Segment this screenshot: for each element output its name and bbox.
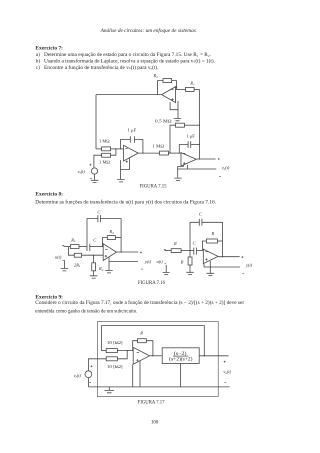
label - (input) / terminal bbox=[63, 259, 65, 261]
wire: local feedback left riser bbox=[133, 341, 138, 351]
wire: R2 feedback left riser bbox=[102, 238, 107, 247]
svg-text:R: R bbox=[180, 259, 184, 264]
svg-text:u(t): u(t) bbox=[55, 254, 62, 259]
wire: C2 to rail bbox=[191, 144, 200, 146]
wire: output minus lead bbox=[109, 260, 138, 262]
wire: 1 Mohm b to node bbox=[111, 149, 116, 155]
wire: vertical R to ground bbox=[189, 265, 191, 272]
node: risers join output bbox=[222, 256, 223, 257]
wire: R1 to right riser bbox=[194, 88, 199, 90]
svg-text:u(t): u(t) bbox=[157, 259, 164, 264]
op-amp A3 bbox=[133, 347, 149, 364]
wire: C2 left riser bbox=[179, 145, 188, 154]
resistor R1 bbox=[70, 245, 79, 249]
ground (right input reference) bbox=[163, 273, 170, 275]
U3 + input box bbox=[178, 165, 188, 169]
voltage source vs(t) bbox=[91, 168, 97, 174]
svg-text:b): b) bbox=[36, 58, 41, 65]
wire: 0.5 Mohm left riser bbox=[170, 125, 176, 153]
svg-text:0.5 MΩ: 0.5 MΩ bbox=[155, 118, 172, 123]
node: rail joins output bbox=[199, 158, 200, 159]
ground (output reference) bbox=[105, 271, 112, 273]
wire: series C to op-amp bbox=[90, 246, 103, 248]
wire: source up lead bbox=[88, 359, 106, 371]
svg-text:vo(t): vo(t) bbox=[222, 165, 230, 171]
label + (output port) bbox=[218, 158, 220, 160]
svg-text:Usando a transformada de Lapla: Usando a transformada de Laplace, resolv… bbox=[44, 58, 215, 65]
svg-text:1 MΩ: 1 MΩ bbox=[152, 144, 164, 149]
svg-text:vs(t): vs(t) bbox=[74, 373, 82, 379]
node B (R-C junction) bbox=[189, 250, 190, 251]
wire: minus terminal to ground bbox=[63, 260, 65, 268]
node: feedback risers join output bbox=[120, 251, 121, 252]
svg-text:Encontre a função de transferê: Encontre a função de transferência de vₛ… bbox=[44, 64, 159, 71]
capacitor C (top feedback) bbox=[98, 215, 101, 222]
wire: 0.5 Mohm to rail bbox=[185, 124, 200, 126]
wire: R2 left riser bbox=[158, 81, 164, 95]
capacitor 1 uF (integrator 1) bbox=[130, 136, 134, 142]
node: C1 tap bbox=[120, 148, 121, 149]
wire: R2 right riser bbox=[172, 81, 177, 90]
capacitor C (series right ckt) bbox=[194, 248, 197, 255]
ground (top op-amp) bbox=[174, 119, 181, 121]
resistor 1 Mohm b (from source) bbox=[102, 153, 111, 157]
svg-text:1 μF: 1 μF bbox=[128, 128, 137, 133]
svg-text:C: C bbox=[97, 210, 100, 215]
node: op-amp inverting input bbox=[127, 350, 128, 351]
svg-text:1 μF: 1 μF bbox=[186, 134, 195, 139]
wire: R2 to ground bbox=[93, 271, 95, 276]
wire: U1 input to R1 bbox=[176, 88, 186, 90]
svg-text:R1: R1 bbox=[70, 237, 76, 243]
wire: subcircuit ground pin bbox=[180, 364, 182, 387]
wire: to integrator 2 input bbox=[169, 152, 182, 154]
wire: feedback R left riser bbox=[203, 241, 207, 251]
node: U1 inverting input junction bbox=[176, 87, 177, 88]
svg-text:y(t): y(t) bbox=[245, 262, 253, 267]
resistor R2 (feedback) bbox=[107, 236, 115, 240]
U2 + input box to ground bbox=[121, 158, 130, 179]
svg-text:Análise de circuitos: um enfoq: Análise de circuitos: um enfoque de sist… bbox=[100, 27, 196, 34]
op-amp U3 (integrator 2) bbox=[181, 153, 196, 166]
node: rail at 0.5 Mohm bbox=[199, 125, 200, 126]
wire: left rail down bbox=[95, 95, 97, 149]
svg-text:1 MΩ: 1 MΩ bbox=[99, 139, 110, 144]
svg-text:vo(t): vo(t) bbox=[223, 369, 231, 375]
resistor 10k bottom bbox=[106, 357, 117, 361]
svg-text:R: R bbox=[139, 331, 143, 336]
wire: R to node B bbox=[181, 250, 194, 252]
svg-text:R: R bbox=[211, 231, 215, 236]
wire: box to ground bbox=[209, 267, 211, 273]
resistor 10k top bbox=[106, 349, 117, 353]
ground (below R2) bbox=[90, 276, 97, 278]
svg-text:Determine uma equação de estad: Determine uma equação de estado para o c… bbox=[44, 52, 211, 58]
wire: top op-amp output to left rail bbox=[96, 94, 162, 96]
capacitor 1 uF (integrator 2) bbox=[188, 141, 191, 148]
node: feedback joins output bbox=[152, 355, 153, 356]
svg-text:FIGURA 7.17: FIGURA 7.17 bbox=[138, 401, 165, 406]
label + (output 7.17) bbox=[224, 361, 226, 363]
wire: 1 Mohm a left lead bbox=[96, 148, 102, 150]
wire: source to ground bbox=[94, 174, 96, 180]
wire: minus lead to ground bbox=[108, 257, 110, 270]
svg-text:(s+2)(s+2): (s+2)(s+2) bbox=[169, 357, 193, 362]
wire: subcircuit output lead bbox=[199, 355, 228, 357]
wire: input to R1 bbox=[64, 246, 71, 248]
wire: 10k bottom joins input node bbox=[117, 351, 127, 359]
fraction bar bbox=[173, 355, 188, 357]
resistor R (feedback right ckt) bbox=[206, 239, 217, 243]
label + (right output) bbox=[241, 256, 243, 258]
ground (input reference) bbox=[61, 269, 68, 271]
wire: series C to op-amp bbox=[197, 250, 204, 252]
label - (output) bbox=[141, 268, 143, 270]
wire: top C to right riser bbox=[202, 222, 223, 256]
svg-text:10 [kΩ]: 10 [kΩ] bbox=[107, 364, 123, 369]
svg-text:Considere o circuito da Figura: Considere o circuito da Figura 7.17, ond… bbox=[35, 299, 244, 306]
wire: output port minus lead bbox=[178, 166, 217, 177]
resistor R2 (vertical, to ground) bbox=[92, 263, 96, 271]
resistor R (input) bbox=[171, 249, 181, 253]
svg-text:vs(t): vs(t) bbox=[78, 169, 86, 175]
svg-text:C: C bbox=[199, 212, 202, 217]
svg-text:1 MΩ: 1 MΩ bbox=[99, 160, 111, 165]
wire: source to bottom rail bbox=[87, 378, 89, 387]
ground (bottom rail) bbox=[105, 387, 115, 393]
ground (integrator 1) bbox=[117, 180, 124, 182]
svg-text:entendida como ganho de tensão: entendida como ganho de tensão de um sub… bbox=[35, 309, 137, 315]
op-amp U2 (integrator 1) bbox=[124, 145, 139, 162]
label - (output port) bbox=[219, 175, 221, 177]
node: rail at C2 bbox=[199, 144, 200, 145]
svg-text:c): c) bbox=[36, 64, 40, 71]
resistor R1 bbox=[186, 87, 195, 91]
wire: output plus lead bbox=[218, 256, 240, 258]
ground (source) bbox=[91, 180, 98, 182]
voltage source vs(t) (7.17) bbox=[85, 371, 92, 378]
resistor 1 Mohm a (from U1 output) bbox=[102, 147, 111, 151]
A3 + input box bbox=[133, 361, 140, 387]
wire: local feedback right riser bbox=[146, 341, 153, 356]
wire: 2R1 to + input bbox=[82, 254, 104, 256]
ground (A2 reference) bbox=[207, 273, 214, 275]
wire: feedback to 10k top bbox=[102, 350, 107, 352]
resistor 0.5 Mohm bbox=[176, 123, 185, 127]
U1 + input box to ground bbox=[170, 101, 178, 118]
resistor R2 bbox=[163, 79, 172, 83]
capacitor C (top feedback right ckt) bbox=[199, 219, 202, 226]
wire: top C left riser bbox=[87, 219, 98, 244]
wire: output plus lead bbox=[117, 251, 139, 253]
resistor 2R1 bbox=[74, 253, 81, 257]
wire: C1 left riser bbox=[121, 140, 131, 149]
wire: to integrator input bbox=[111, 148, 124, 150]
svg-text:R2: R2 bbox=[109, 229, 115, 235]
subcircuit transfer-function box bbox=[162, 348, 199, 364]
label + (output) bbox=[140, 252, 142, 254]
node: + input / R2 tap bbox=[93, 255, 94, 256]
resistor 1 Mohm c (coupling) bbox=[160, 151, 169, 155]
wire: C1 right riser bbox=[135, 140, 143, 154]
svg-text:a): a) bbox=[36, 51, 40, 58]
label - (output 7.17) bbox=[224, 381, 226, 383]
svg-text:R: R bbox=[173, 241, 177, 246]
input terminal u(t) bbox=[62, 245, 64, 247]
wire: integrator1 output bbox=[138, 152, 159, 154]
label + (source 7.17) bbox=[91, 365, 93, 367]
wire: input to R bbox=[165, 250, 172, 252]
svg-text:2R1: 2R1 bbox=[74, 262, 81, 268]
svg-text:FIGURA 7.16: FIGURA 7.16 bbox=[138, 281, 166, 286]
subcircuit frame bbox=[97, 322, 218, 397]
label + (source) bbox=[90, 164, 92, 166]
svg-text:y(t): y(t) bbox=[144, 259, 152, 264]
wire: source up lead bbox=[94, 155, 102, 168]
label - (source 7.17) bbox=[89, 382, 91, 384]
op-amp U1 (left-facing) bbox=[162, 87, 176, 103]
wire: branch down to 2R1 bbox=[68, 247, 74, 256]
capacitor C (series input) bbox=[87, 244, 90, 251]
svg-text:R2: R2 bbox=[98, 266, 104, 272]
op-amp A1 bbox=[103, 244, 116, 261]
wire: top C to right riser bbox=[100, 219, 121, 252]
label - (right input) bbox=[165, 263, 167, 265]
svg-text:Exercício 8:: Exercício 8: bbox=[35, 191, 63, 197]
node: global feedback tap bbox=[204, 355, 205, 356]
svg-text:R1: R1 bbox=[189, 81, 195, 87]
svg-text:10 [kΩ]: 10 [kΩ] bbox=[107, 340, 123, 345]
ground (integrator 2) bbox=[174, 178, 181, 180]
svg-text:100: 100 bbox=[151, 420, 159, 426]
svg-text:R2: R2 bbox=[153, 73, 159, 79]
wire: vertical R down from node B bbox=[189, 251, 191, 257]
node: 0.5 Mohm tap bbox=[169, 152, 170, 153]
node: integrator 1 input bbox=[115, 148, 116, 149]
wire: top C left riser bbox=[190, 222, 199, 250]
resistor R (op-amp feedback) bbox=[138, 339, 147, 343]
ground (below vertical R) bbox=[186, 272, 193, 274]
label - (right output) bbox=[242, 273, 244, 275]
svg-text:C: C bbox=[93, 237, 96, 242]
wire: feedback R to riser bbox=[217, 240, 222, 242]
input terminal u(t) right ckt bbox=[164, 249, 166, 251]
wire: output minus lead bbox=[210, 266, 240, 268]
svg-text:Determine as funções de transf: Determine as funções de transferência de… bbox=[35, 198, 216, 205]
svg-text:C: C bbox=[193, 241, 196, 246]
wire: integrator 2 output bbox=[196, 158, 215, 160]
wire: right riser (vo feedback rail) bbox=[198, 89, 200, 159]
wire: R2 to right riser bbox=[115, 237, 121, 239]
node: C1 to output bbox=[142, 152, 143, 153]
resistor R (vertical, right ckt) bbox=[188, 257, 192, 265]
wire: global feedback loop bbox=[102, 326, 205, 356]
svg-text:FIGURA 7.15: FIGURA 7.15 bbox=[140, 184, 168, 189]
svg-text:Exercício 7:: Exercício 7: bbox=[35, 46, 63, 52]
wire: bottom rail bbox=[88, 386, 229, 388]
wire: down to vertical R2 bbox=[93, 255, 95, 263]
wire: R1 to series C bbox=[79, 246, 87, 248]
wire: right input reference to ground bbox=[165, 265, 167, 272]
op-amp A2 bbox=[203, 249, 218, 263]
A2 + input box bbox=[204, 261, 210, 267]
wire: op-amp output to subcircuit bbox=[150, 355, 163, 357]
wire: 10k top to inverting input bbox=[117, 350, 133, 352]
label - (source) bbox=[90, 178, 92, 180]
